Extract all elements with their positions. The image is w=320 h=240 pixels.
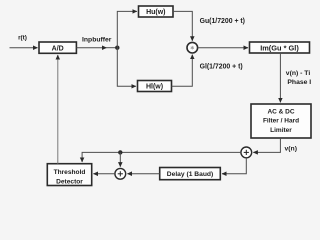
block Im(Gu * Gl) bbox=[250, 42, 310, 53]
block Delay (1 Baud) bbox=[160, 168, 221, 180]
svg-text:Gu(1/7200 + t): Gu(1/7200 + t) bbox=[200, 18, 245, 25]
wire right adder bottom to Delay input bbox=[222, 158, 246, 174]
wire right adder output left to Threshold top bbox=[82, 152, 241, 162]
wire left adder output to Threshold right bbox=[93, 173, 115, 175]
svg-text:Threshold: Threshold bbox=[54, 169, 86, 176]
svg-text:Filter / Hard: Filter / Hard bbox=[263, 118, 299, 125]
block Threshold Detector bbox=[47, 164, 91, 186]
wire AC box down and left to right adder bbox=[253, 138, 280, 152]
wire junction up to Hu(w) bbox=[117, 11, 137, 47]
wire A/D output to junction bbox=[76, 47, 106, 49]
wire junction down into left adder bbox=[119, 152, 121, 166]
block A/D bbox=[39, 42, 76, 53]
summer left bbox=[115, 168, 126, 179]
svg-text:Hl(w): Hl(w) bbox=[146, 84, 163, 91]
svg-text:Inpbuffer: Inpbuffer bbox=[82, 36, 112, 43]
wire r(t) input to A/D bbox=[10, 47, 38, 49]
wire multiplier to Im box bbox=[198, 47, 248, 49]
multiplier circle bbox=[187, 42, 198, 53]
wire Delay output to left adder bbox=[127, 173, 159, 175]
block AC & DC Filter / Hard Limiter bbox=[251, 104, 311, 138]
block Hu(w) bbox=[139, 6, 174, 17]
block Hl(w) bbox=[138, 81, 172, 92]
svg-text:AC & DC: AC & DC bbox=[267, 109, 294, 116]
svg-text:Gl(1/7200 + t): Gl(1/7200 + t) bbox=[200, 63, 243, 70]
node junction dot bottom bbox=[118, 150, 122, 154]
node junction dot bbox=[115, 46, 119, 50]
svg-text:Im(Gu * Gl): Im(Gu * Gl) bbox=[260, 43, 299, 52]
svg-text:v(n): v(n) bbox=[285, 146, 297, 153]
wire Im box down to AC box bbox=[279, 53, 281, 102]
svg-text:Delay (1 Baud): Delay (1 Baud) bbox=[167, 171, 213, 178]
svg-text:Phase I: Phase I bbox=[287, 79, 311, 86]
wire junction down to Hl(w) bbox=[117, 48, 136, 87]
wire Hu(w) output to multiplier top bbox=[173, 11, 192, 40]
svg-text:Hu(w): Hu(w) bbox=[146, 9, 165, 16]
summer right bbox=[241, 147, 252, 158]
svg-text:Limiter: Limiter bbox=[270, 127, 292, 134]
svg-text:v(n) - Ti: v(n) - Ti bbox=[286, 70, 311, 77]
svg-text:r(t): r(t) bbox=[18, 34, 27, 41]
wire Threshold feedback up to A/D bottom bbox=[57, 55, 59, 164]
wire Hl(w) output to multiplier bottom bbox=[172, 55, 193, 87]
svg-text:A/D: A/D bbox=[52, 45, 64, 52]
svg-text:Detector: Detector bbox=[56, 179, 83, 186]
